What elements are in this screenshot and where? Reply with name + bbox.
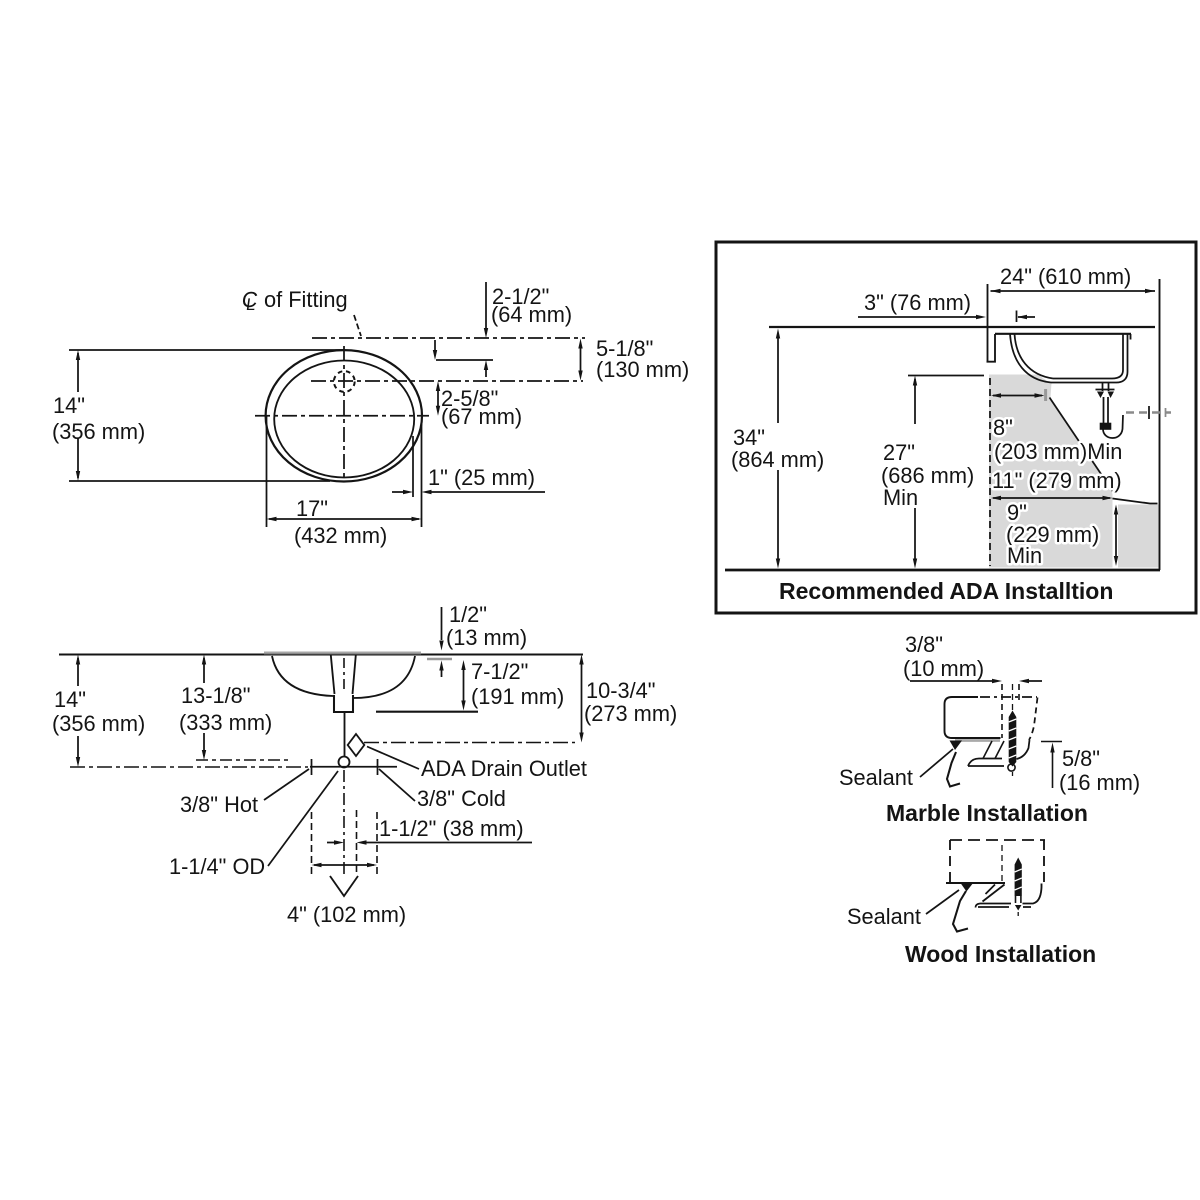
svg-text:4" (102 mm): 4" (102 mm) bbox=[287, 902, 406, 927]
marble bolt nut circle bbox=[1008, 764, 1015, 771]
bowl outer front wall bbox=[1010, 334, 1051, 383]
marble slab top dash-dot bbox=[980, 696, 1037, 698]
sink outer rim ellipse bbox=[266, 350, 422, 481]
svg-text:10-3/4": 10-3/4" bbox=[586, 678, 656, 703]
toe space top line bbox=[1113, 499, 1158, 504]
left 4in extension dashed bbox=[311, 812, 313, 876]
trap tailpiece upper bbox=[1103, 383, 1109, 392]
svg-text:(13 mm): (13 mm) bbox=[446, 625, 527, 650]
dimension 2-1/2in leader bbox=[484, 282, 488, 338]
sink inner bowl ellipse bbox=[274, 361, 414, 478]
svg-text:of Fitting: of Fitting bbox=[264, 287, 348, 312]
svg-text:5/8": 5/8" bbox=[1062, 746, 1100, 771]
ADA outlet extension dashed bbox=[356, 810, 358, 876]
leader 1-1/4 OD bbox=[268, 771, 338, 866]
DETAILS bbox=[839, 632, 1140, 967]
leader wood sealant bbox=[926, 890, 959, 914]
top extension line 14in bbox=[69, 349, 344, 351]
dimension 5-1/8in line bbox=[578, 339, 582, 381]
trap flange line bbox=[1096, 389, 1115, 391]
toe clearance gray area bbox=[1118, 505, 1159, 568]
supply tee circle bbox=[339, 757, 350, 768]
faucet hole circle bbox=[334, 371, 355, 392]
knee front dashed line bbox=[989, 378, 991, 566]
supply line bbox=[310, 766, 397, 768]
wood cut edge dashed bbox=[1001, 845, 1003, 883]
dimension 5/8in bbox=[1041, 742, 1062, 789]
dimension 17in line bbox=[267, 517, 422, 521]
leader 3/8 cold bbox=[379, 769, 415, 801]
svg-text:1-1/2" (38 mm): 1-1/2" (38 mm) bbox=[379, 816, 524, 841]
dimension 4in line bbox=[312, 863, 378, 867]
drain centerline upper bbox=[343, 658, 345, 692]
knee clearance diagonal bbox=[1050, 398, 1113, 492]
svg-text:Sealant: Sealant bbox=[847, 904, 921, 929]
leader 3/8 hot bbox=[264, 769, 309, 800]
svg-text:(64 mm): (64 mm) bbox=[491, 302, 572, 327]
marble slab outline bbox=[945, 697, 1001, 738]
dimension 8in arrows bbox=[991, 393, 1045, 397]
hot supply tick bbox=[311, 759, 313, 775]
svg-text:(130 mm): (130 mm) bbox=[596, 357, 689, 382]
wood sink rim clip bbox=[976, 884, 1042, 908]
trap U-bend bbox=[1103, 415, 1123, 438]
svg-text:13-1/8": 13-1/8" bbox=[181, 683, 251, 708]
marble right extension dashed bbox=[1018, 684, 1020, 700]
24in left extension bbox=[987, 284, 989, 362]
dimension 2-5/8in line bbox=[436, 381, 440, 416]
svg-text:(10 mm): (10 mm) bbox=[903, 656, 984, 681]
trap arm small tick bbox=[1165, 408, 1167, 417]
CL symbol bbox=[240, 287, 259, 314]
wood counter dashed top bbox=[950, 839, 1045, 841]
svg-text:ADA Drain Outlet: ADA Drain Outlet bbox=[421, 756, 587, 781]
svg-text:27": 27" bbox=[883, 440, 915, 465]
vertical centerline of sink bbox=[343, 346, 345, 478]
svg-text:(333 mm): (333 mm) bbox=[179, 710, 272, 735]
dimension 1in stubs bbox=[392, 490, 545, 494]
svg-text:1" (25 mm): 1" (25 mm) bbox=[428, 465, 535, 490]
svg-text:3/8" Cold: 3/8" Cold bbox=[417, 786, 506, 811]
bowl bottom extension line bbox=[376, 711, 478, 713]
marble clamp bolt centerline upper bbox=[1012, 684, 1014, 710]
dimension 3/8in bbox=[910, 679, 1042, 683]
svg-text:24" (610 mm): 24" (610 mm) bbox=[1000, 264, 1131, 289]
horizontal centerline of sink bbox=[255, 415, 429, 417]
countertop surface line bbox=[769, 326, 1155, 328]
counter front edge step bbox=[987, 334, 996, 362]
svg-text:(356 mm): (356 mm) bbox=[52, 419, 145, 444]
bowl inner back wall bbox=[1112, 334, 1123, 379]
drain shank left line bbox=[331, 655, 335, 694]
leader ADA drain outlet bbox=[367, 747, 419, 770]
dimension 13-1/8in bbox=[202, 655, 206, 761]
27in top extension line bbox=[908, 375, 984, 377]
marble hidden sink rim dashed bbox=[1029, 698, 1038, 741]
bowl outer bottom bbox=[1051, 382, 1117, 384]
floor line bbox=[725, 569, 1160, 572]
svg-text:Marble Installation: Marble Installation bbox=[886, 800, 1088, 826]
ADA-BOX bbox=[716, 242, 1196, 613]
svg-text:(203 mm)Min: (203 mm)Min bbox=[994, 439, 1122, 464]
bowl inner front wall bbox=[1015, 334, 1054, 379]
dimension 9in bbox=[1114, 505, 1118, 567]
marble sealant triangle bbox=[950, 741, 963, 751]
trap slip nut wings bbox=[1097, 392, 1104, 399]
dimension 11in bbox=[991, 496, 1113, 500]
svg-text:14": 14" bbox=[53, 393, 85, 418]
rim top line bbox=[59, 653, 583, 655]
pipe break V symbol bbox=[330, 876, 358, 896]
svg-text:Recommended ADA Installtion: Recommended ADA Installtion bbox=[779, 578, 1113, 604]
marble sealant gray band bbox=[955, 739, 1000, 742]
dimension 1/2in upper leader bbox=[439, 607, 443, 651]
drain shank right line bbox=[353, 655, 356, 694]
svg-text:11" (279 mm): 11" (279 mm) bbox=[992, 468, 1122, 493]
rim underside gray stub bbox=[427, 658, 452, 660]
marble cut edge dashed bbox=[1001, 684, 1003, 738]
svg-text:(16 mm): (16 mm) bbox=[1059, 770, 1140, 795]
dimension 27in bbox=[913, 376, 917, 569]
svg-text:Min: Min bbox=[883, 485, 918, 510]
ADA drain outlet diamond bbox=[348, 734, 365, 756]
wood counter dashed left bbox=[949, 840, 951, 883]
SIDE-VIEW bbox=[52, 602, 677, 927]
trap arm wall tick bbox=[1148, 406, 1150, 419]
wood counter bottom line bbox=[946, 882, 1005, 884]
extension line 1in bbox=[412, 436, 414, 497]
svg-text:(356 mm): (356 mm) bbox=[52, 711, 145, 736]
bowl left inner wall bbox=[272, 656, 333, 696]
supply level dashed line bbox=[196, 759, 290, 761]
svg-text:(191 mm): (191 mm) bbox=[471, 684, 564, 709]
rim right end tick bbox=[1130, 334, 1132, 340]
svg-text:1-1/4" OD: 1-1/4" OD bbox=[169, 854, 265, 879]
svg-text:8": 8" bbox=[993, 415, 1013, 440]
svg-text:3/8": 3/8" bbox=[905, 632, 943, 657]
marble clip hook bbox=[947, 752, 960, 787]
drain centerline lower bbox=[343, 770, 345, 876]
arrow up to line B bbox=[484, 360, 488, 377]
svg-text:(273 mm): (273 mm) bbox=[584, 701, 677, 726]
wood bolt centerline bbox=[1017, 912, 1019, 918]
trap arm dashes bbox=[1126, 411, 1171, 413]
svg-text:(864 mm): (864 mm) bbox=[731, 447, 824, 472]
bowl outer back wall bbox=[1117, 334, 1128, 383]
svg-text:14": 14" bbox=[54, 687, 86, 712]
svg-text:7-1/2": 7-1/2" bbox=[471, 659, 528, 684]
extension lines 17in bbox=[267, 416, 422, 527]
right 4in extension dashed bbox=[376, 812, 378, 876]
svg-text:3/8" Hot: 3/8" Hot bbox=[180, 792, 258, 817]
dimension 14in side bbox=[76, 655, 80, 768]
dimension 24in line bbox=[991, 289, 1156, 293]
bottom extension line 14in bbox=[69, 480, 330, 482]
dimension 1/2in lower arrow bbox=[439, 661, 443, 678]
wall line bbox=[1159, 279, 1161, 570]
svg-text:Wood Installation: Wood Installation bbox=[905, 941, 1096, 967]
inner-bowl top extension line B bbox=[436, 359, 493, 361]
cold supply tick bbox=[377, 759, 379, 775]
PLAN-VIEW bbox=[52, 282, 689, 548]
dimension 3in line bbox=[858, 315, 1035, 319]
leader from CL of Fitting bbox=[354, 315, 361, 336]
dimension 14in plan line bbox=[76, 350, 80, 481]
rim thick gray overlay bbox=[264, 652, 421, 655]
drain tailpiece line bbox=[344, 712, 346, 757]
wood clamp bolt bbox=[1015, 858, 1022, 911]
wood counter dashed right bbox=[1043, 840, 1045, 883]
drain outlet centerline right bbox=[364, 742, 575, 744]
marble sink rim clip bbox=[968, 740, 1030, 766]
wood clip hook bbox=[953, 891, 968, 932]
bottom reference centerline bbox=[70, 766, 308, 768]
svg-text:(67 mm): (67 mm) bbox=[441, 404, 522, 429]
3in tick bbox=[1016, 311, 1018, 323]
marble bolt centerline lower bbox=[1012, 772, 1014, 778]
centerline A (fitting back line) bbox=[312, 337, 585, 339]
dimension 1-1/2in stubs bbox=[327, 840, 532, 844]
bowl inner bottom bbox=[1053, 378, 1112, 380]
dimension 10-3/4in bbox=[579, 655, 583, 743]
bowl right inner wall bbox=[353, 656, 415, 698]
drain body rectangle bbox=[334, 695, 353, 712]
leader marble sealant bbox=[920, 749, 953, 777]
trap lower nut bbox=[1101, 424, 1111, 430]
8in gray tick bbox=[1044, 389, 1047, 401]
svg-text:17": 17" bbox=[296, 496, 328, 521]
arrow from line A to line B bbox=[433, 340, 437, 360]
sink rim line under counter bbox=[995, 333, 1131, 335]
marble clamp bolt bbox=[1009, 711, 1017, 767]
centerline C through faucet bbox=[311, 380, 583, 382]
dimension 34in bbox=[776, 329, 780, 569]
wood sealant triangle bbox=[961, 884, 973, 892]
ADA box border bbox=[716, 242, 1196, 613]
svg-text:1/2": 1/2" bbox=[449, 602, 487, 627]
svg-text:Min: Min bbox=[1007, 543, 1042, 568]
knee clearance gray area bbox=[989, 375, 1113, 568]
dimension 7-1/2in bbox=[461, 660, 465, 711]
trap tailpiece lower bbox=[1104, 397, 1109, 424]
svg-text:Sealant: Sealant bbox=[839, 765, 913, 790]
svg-text:3" (76 mm): 3" (76 mm) bbox=[864, 290, 971, 315]
svg-text:(432 mm): (432 mm) bbox=[294, 523, 387, 548]
